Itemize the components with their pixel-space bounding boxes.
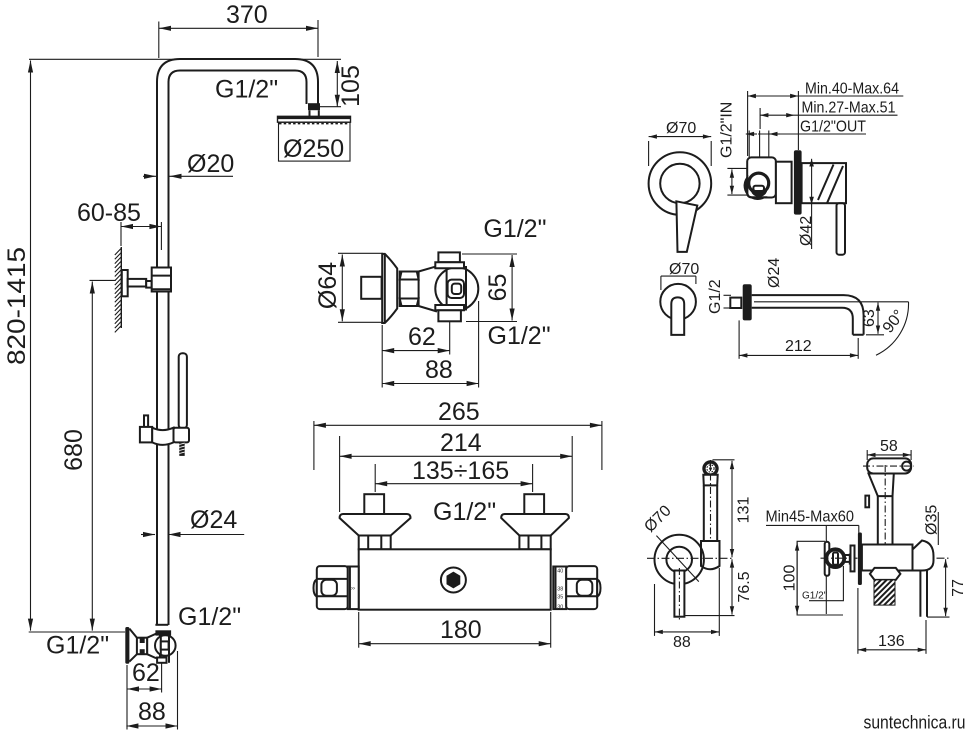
wall plate (side, dark) (794, 150, 802, 214)
wall pipe square stub (361, 277, 381, 299)
svg-text:35: 35 (557, 594, 563, 600)
svg-text:40: 40 (557, 568, 563, 574)
svg-text:G1/2": G1/2" (488, 322, 551, 350)
left inlet square stub (364, 494, 384, 514)
svg-text:60-85: 60-85 (77, 199, 141, 227)
svg-text:G1/2"IN: G1/2"IN (719, 102, 736, 158)
mixer body right of plate (802, 163, 846, 203)
svg-text:136: 136 (878, 633, 905, 650)
holder (front) (701, 541, 720, 569)
label G1/2"OUT with leader (746, 119, 866, 136)
threaded rod (hatched) (874, 580, 895, 605)
svg-text:265: 265 (438, 398, 480, 426)
dimension 180 (359, 612, 551, 648)
svg-text:G1/2: G1/2 (707, 279, 724, 314)
left handle bands (317, 579, 348, 596)
dimension 105 (29, 59, 365, 107)
dimension 62 (bottom) (127, 659, 162, 693)
spray head cone (side) (869, 474, 894, 497)
label Ø35 with leader (924, 505, 941, 545)
elbow bottom stub (157, 658, 166, 663)
svg-text:62: 62 (132, 659, 160, 687)
stem to valve (844, 554, 850, 565)
hex nut below valve (870, 568, 901, 580)
dimension G1/2 IN port (727, 168, 750, 195)
spray handle tube (side) (878, 465, 893, 556)
dimension 212 (739, 320, 858, 358)
svg-text:100: 100 (782, 565, 799, 592)
escutcheon circle (spout front) (660, 284, 696, 320)
mixer nut (400, 272, 419, 307)
centerline extension (754, 301, 909, 303)
svg-text:131: 131 (736, 497, 753, 524)
valve body (side) (862, 545, 913, 571)
spout threaded stub (730, 298, 741, 308)
svg-text:Min.40-Max.64: Min.40-Max.64 (805, 81, 899, 98)
Ø70 diagonal leader (641, 502, 698, 581)
dimension Min.40-Max.64 (748, 81, 904, 157)
mounting bracket (side) (744, 157, 776, 200)
svg-text:G1/2": G1/2" (802, 591, 828, 602)
escutcheon inner circle (front) (666, 547, 692, 573)
label box Ø250 (279, 122, 351, 163)
wall bracket arm (128, 279, 147, 287)
shower head plate (278, 116, 351, 123)
dimension 65 (462, 254, 517, 322)
spout wall flange (dark) (743, 284, 752, 320)
svg-text:77: 77 (950, 579, 967, 597)
mixer body circle (435, 267, 478, 310)
svg-text:Ø24: Ø24 (190, 506, 237, 534)
left handle knob (317, 566, 348, 609)
dimension 60-85 (77, 199, 161, 250)
escutcheon outer circle (front) (655, 535, 704, 584)
right handle face ellipse (577, 580, 593, 596)
dimension 136 (858, 588, 926, 654)
svg-text:››: ›› (351, 586, 355, 592)
dimension Ø42 (798, 159, 815, 249)
dimension 214 (340, 429, 573, 512)
spout tube (752, 295, 864, 335)
label Ø70 with bracket (661, 261, 699, 290)
wall bracket flange (122, 270, 128, 296)
right handle bands (566, 579, 597, 596)
wall plate (side, dark) (858, 533, 862, 586)
svg-text:G1/2": G1/2" (215, 76, 278, 104)
cartridge sleeve lines (447, 266, 466, 311)
dimension Ø24 (141, 506, 244, 535)
svg-text:suntechnica.ru: suntechnica.ru (864, 713, 966, 733)
slider knob (144, 415, 148, 427)
dimension 100 (782, 541, 844, 615)
bottom port (435, 305, 464, 321)
right inlet bell (501, 514, 569, 536)
left handle bump (314, 579, 317, 596)
dimension 58 (867, 438, 911, 460)
hand shower holder (174, 428, 190, 443)
cross handle (side) (821, 542, 950, 576)
mixer neck (419, 266, 437, 311)
bottom elbow nut (137, 638, 147, 655)
dimension 88 (bottom) (126, 651, 177, 730)
dimension 135÷165 (375, 457, 532, 492)
svg-text:135÷165: 135÷165 (412, 457, 509, 485)
svg-text:63: 63 (861, 309, 878, 327)
hose thread below holder (179, 442, 184, 456)
svg-text:105: 105 (337, 65, 365, 107)
svg-text:214: 214 (440, 429, 482, 457)
svg-text:G1/2": G1/2" (433, 498, 496, 526)
escutcheon inner circle (660, 164, 699, 203)
bottom elbow body (147, 634, 160, 658)
right handle bump (597, 579, 600, 596)
svg-text:680: 680 (60, 429, 88, 471)
svg-text:88: 88 (425, 356, 453, 384)
spout lever (front) (671, 297, 684, 335)
dimension Ø20 (143, 150, 234, 178)
svg-text:62: 62 (408, 323, 436, 351)
svg-text:G1/2": G1/2" (483, 215, 546, 243)
bracket slider block on pipe (152, 268, 171, 292)
dimension Min.27-Max.51 (760, 100, 897, 130)
dimension Ø70 (front view) (649, 120, 712, 166)
svg-text:Ø20: Ø20 (187, 150, 234, 178)
lever (front) (674, 568, 684, 620)
svg-text:30: 30 (557, 604, 563, 610)
escutcheon collar (side) (851, 546, 855, 572)
svg-text:212: 212 (785, 338, 812, 355)
right inlet square stub (524, 494, 544, 514)
dimension 88 (mixer) (382, 301, 478, 388)
spray handle (front) (703, 460, 717, 545)
inlet pipes behind wall (749, 131, 769, 158)
escutcheon outer circle (649, 152, 712, 215)
left handle face ellipse (321, 580, 337, 596)
svg-text:65: 65 (484, 274, 512, 302)
left inlet nut (359, 536, 391, 550)
spray head (front, dark ring) (702, 460, 718, 476)
dimension 62 (mixer) (382, 322, 450, 355)
svg-text:Ø42: Ø42 (798, 216, 815, 246)
wire: riser pipe inner contour (169, 71, 307, 626)
svg-text:Ø64: Ø64 (314, 262, 342, 309)
dimension 63 (861, 303, 884, 335)
valve body cylinder (side) (776, 162, 792, 204)
right inlet nut (519, 536, 550, 550)
svg-text:180: 180 (440, 616, 482, 644)
lever bar (side) (837, 203, 846, 255)
label G1/2 (spout) (707, 279, 731, 314)
thermostat body (359, 549, 551, 609)
pipe connection nut above elbow (155, 625, 171, 636)
wall line with hatching (115, 247, 122, 332)
label G1/2" small with leader (802, 566, 843, 602)
svg-text:38: 38 (557, 586, 563, 592)
hand shower wand (179, 353, 187, 428)
dimension 88 (bidet front) (655, 568, 720, 651)
dimension 370 (159, 1, 318, 58)
hand shower slider middle (152, 428, 173, 445)
svg-text:G1/2": G1/2" (46, 632, 109, 660)
dimension 76.5 (685, 559, 754, 615)
shower head connector nut (308, 103, 320, 110)
left handle ring (348, 567, 359, 610)
hand shower slider left block (140, 427, 152, 443)
central hex screw (441, 568, 466, 593)
trigger clip (side) (865, 496, 869, 508)
svg-text:370: 370 (226, 1, 268, 29)
dimension 77 (927, 559, 967, 617)
cap square in circle (448, 280, 464, 298)
dimension Ø64 (314, 253, 383, 322)
wall bracket nut (146, 281, 152, 288)
outlet elbow (side) (913, 541, 934, 571)
left inlet bell (340, 514, 411, 536)
dimension 265 (314, 398, 602, 470)
wall flange cone (382, 254, 397, 323)
90° arc (876, 302, 909, 355)
dimension 680 (60, 280, 116, 630)
svg-text:Ø24: Ø24 (766, 258, 783, 288)
svg-text:820-1415: 820-1415 (3, 247, 31, 365)
top port (435, 252, 464, 268)
svg-text:Ø70: Ø70 (669, 261, 699, 278)
outlet tube down (920, 571, 927, 617)
svg-text:88: 88 (673, 634, 691, 651)
svg-text:Ø250: Ø250 (283, 135, 344, 163)
svg-text:88: 88 (138, 698, 166, 726)
bottom elbow wall flange (125, 627, 137, 664)
svg-text:76.5: 76.5 (736, 571, 753, 602)
svg-text:Ø70: Ø70 (666, 120, 696, 137)
svg-text:G1/2"OUT: G1/2"OUT (800, 119, 866, 136)
dimension 820-1415 (3, 61, 125, 633)
right handle ring (553, 567, 566, 611)
shower head neck (310, 110, 319, 116)
mixer lever (front) (676, 201, 697, 252)
dimension 131 (713, 460, 753, 558)
elbow circle block (155, 635, 176, 663)
lever attachment diagonals (818, 165, 843, 204)
svg-text:G1/2": G1/2" (178, 603, 241, 631)
svg-text:Min45-Max60: Min45-Max60 (766, 509, 855, 526)
svg-text:58: 58 (880, 438, 898, 455)
label Min45-Max60 with leader (766, 509, 859, 615)
centerline through escutcheon (647, 557, 734, 559)
svg-text:Min.27-Max.51: Min.27-Max.51 (802, 100, 896, 117)
wire: riser pipe outer contour (157, 59, 318, 625)
holder bracket bar (side) (863, 458, 914, 473)
right handle knob (566, 566, 597, 609)
